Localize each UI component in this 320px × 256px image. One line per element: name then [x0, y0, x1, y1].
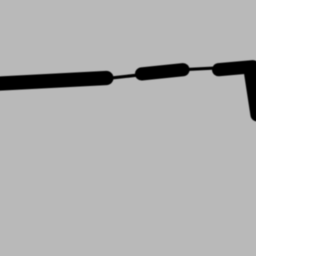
- wire (thin continuous centerline between dashes): [0, 66, 257, 115]
- dash segment 2 (middle thick bar): [142, 70, 183, 74]
- dash segment 3 (descending part, exits right edge): [250, 69, 257, 115]
- dash segment 3 (right thick bar, horizontal part): [219, 67, 253, 70]
- dash segment 1 (left thick bar): [0, 78, 106, 85]
